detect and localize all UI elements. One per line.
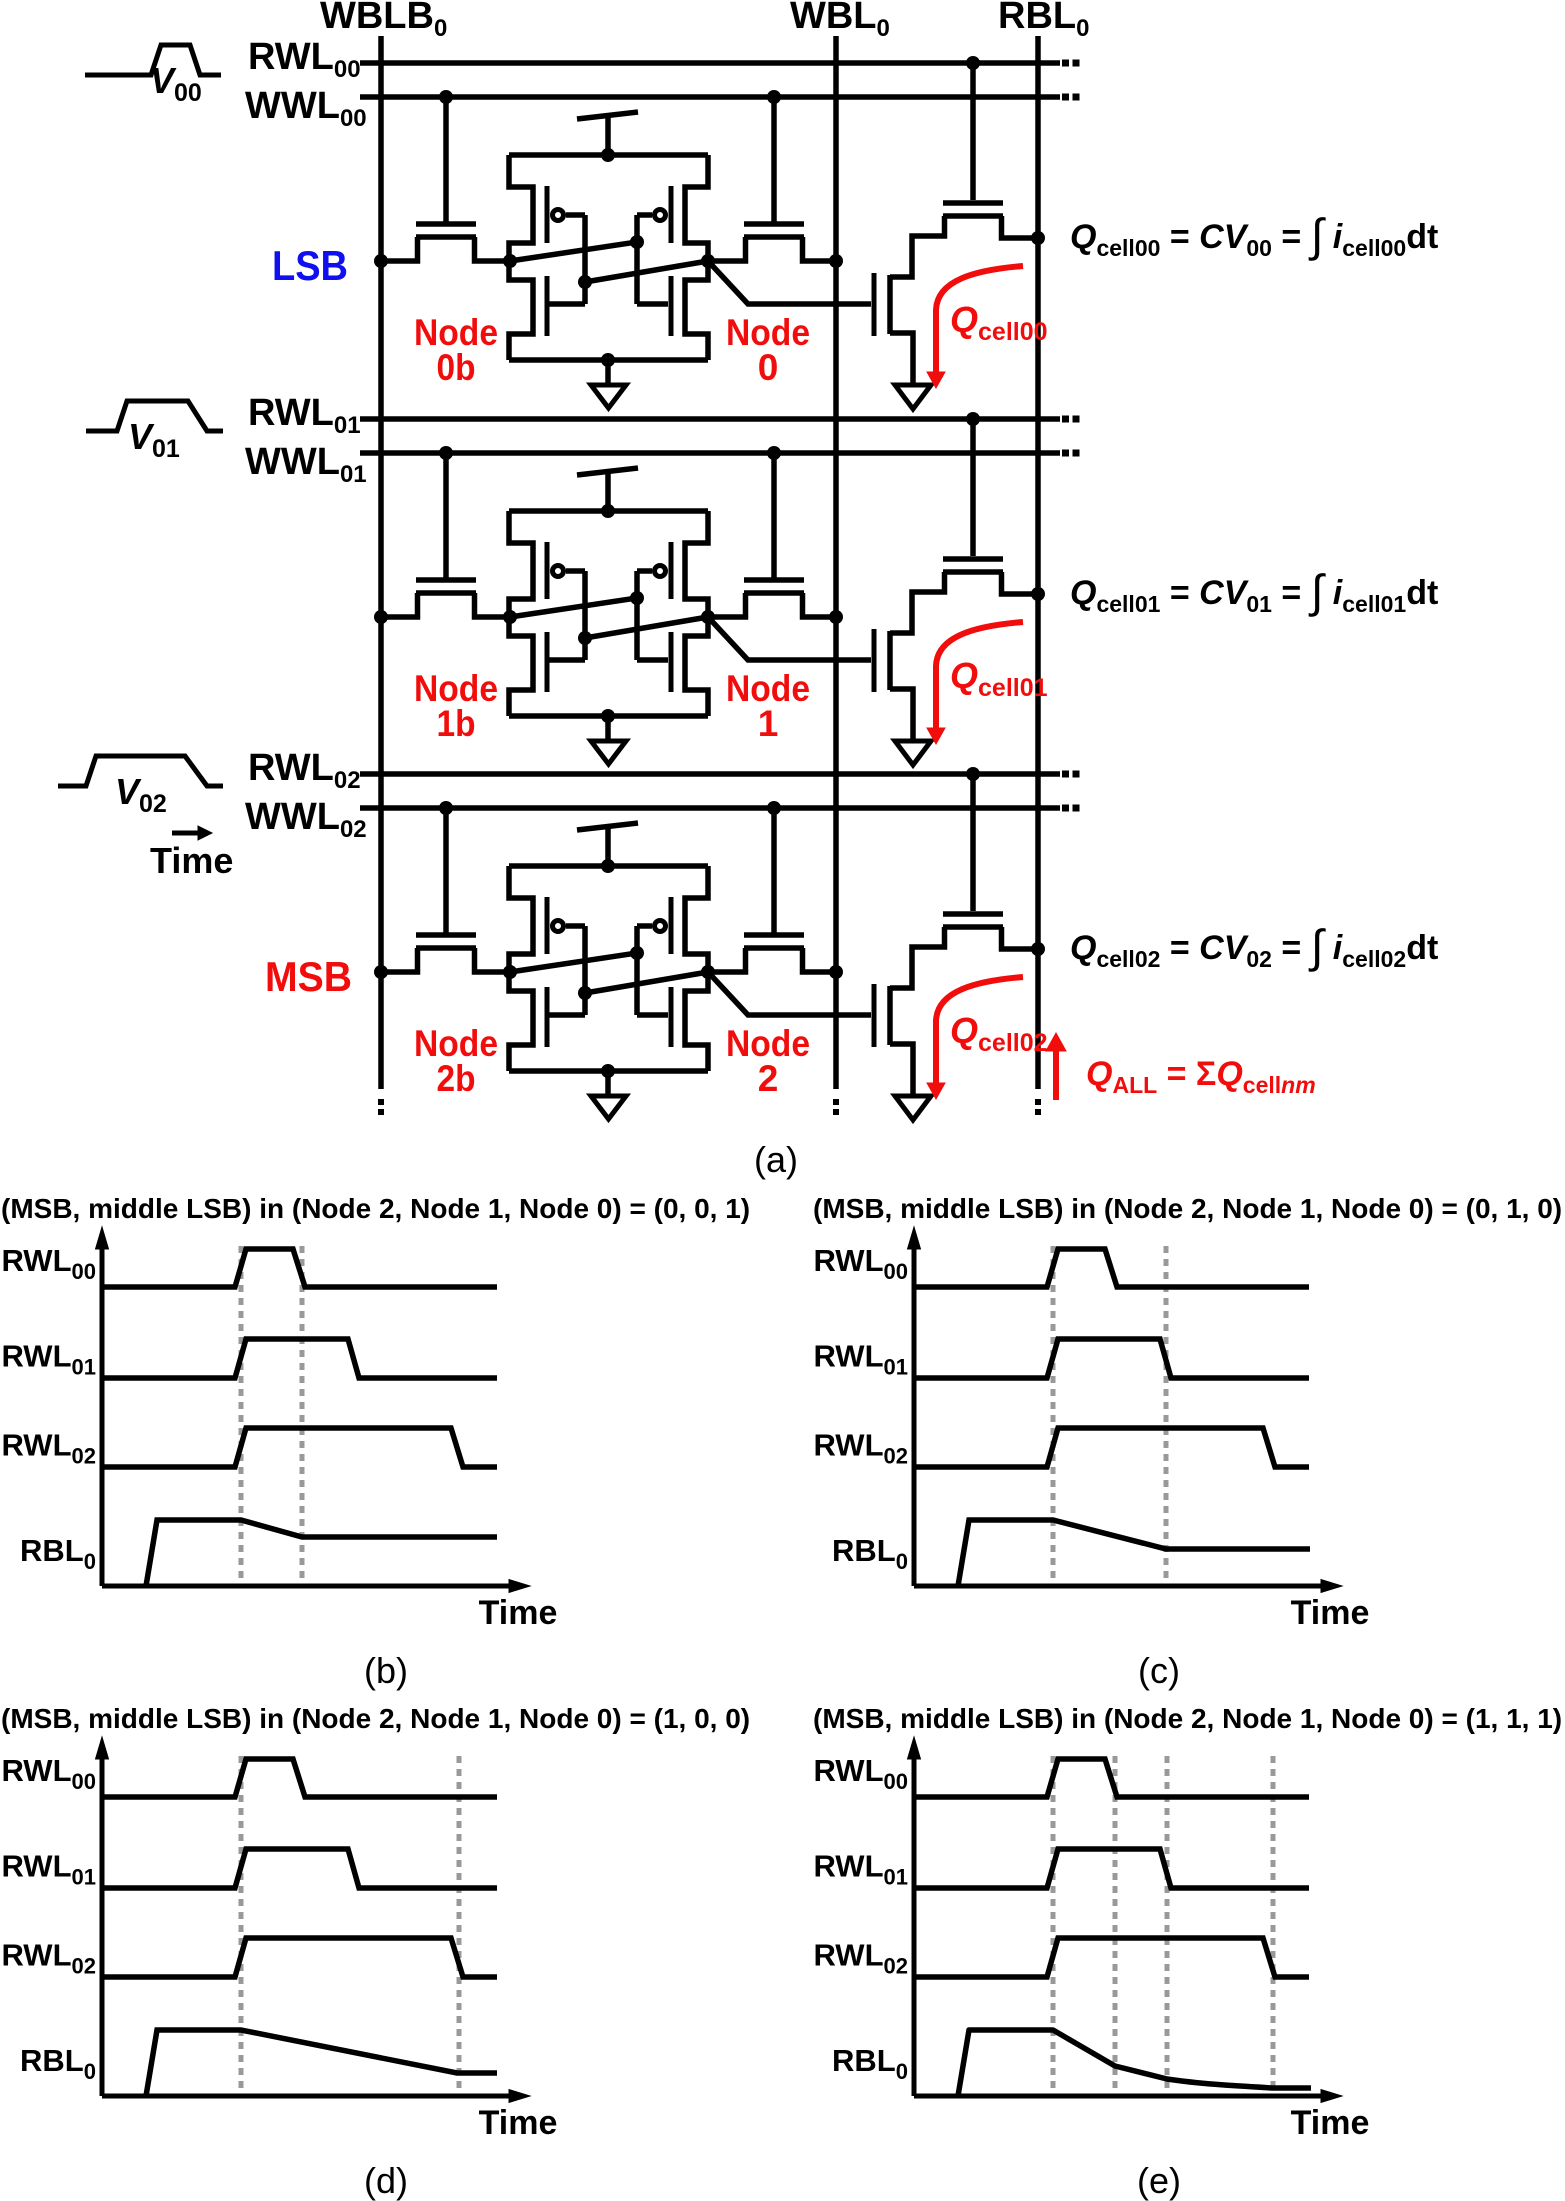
waveform RWL02 panel (e) (914, 1938, 1309, 1977)
node 1b junction (storage node) (503, 610, 517, 624)
dotted reference line 2 panel (c) (1164, 1246, 1169, 1586)
wire node 0 to read driver gate (708, 261, 871, 304)
svg-text:(b): (b) (364, 1650, 408, 1691)
wire node 1 to read driver gate (708, 617, 871, 660)
svg-text:0b: 0b (437, 347, 476, 388)
transistor left pull-up PMOS + pull-down NMOS source/drain chain cell 01 (509, 511, 533, 716)
power VDD symbol of cell 00 (577, 112, 638, 119)
node 2b junction (storage node) (503, 965, 517, 979)
junction cross-couple A cell 00 (630, 235, 644, 249)
junction WBLB0 / cell 01 (374, 610, 388, 624)
y axis panel (b) (100, 1248, 105, 1586)
continuation dots RWL00 (1062, 60, 1069, 67)
junction WBL0 / cell 01 (829, 610, 843, 624)
continuation dots RWL01 (1062, 416, 1069, 423)
junction WBLB0 / cell 00 (374, 254, 388, 268)
svg-text:Time: Time (479, 2104, 558, 2142)
transistor left pull-up PMOS + pull-down NMOS source/drain chain cell 00 (509, 155, 533, 360)
svg-text:(c): (c) (1138, 1650, 1180, 1691)
dotted reference line 1 panel (b) (239, 1246, 244, 1586)
power VDD symbol of cell 01 (577, 468, 638, 475)
waveform RWL00 panel (c) (914, 1249, 1309, 1287)
svg-text:(e): (e) (1137, 2160, 1181, 2201)
transistor left pull-up PMOS + pull-down NMOS source/drain chain cell 02 (509, 866, 533, 1071)
gate bar left PMOS cell 02 (545, 897, 550, 954)
gate bar left NMOS cell 02 (545, 987, 550, 1047)
waveform RWL02 panel (c) (914, 1428, 1309, 1467)
svg-text:Time: Time (150, 840, 233, 881)
wire WWL01 row line (360, 450, 1060, 456)
ground symbol of latch cell 00 (605, 360, 611, 385)
svg-text:(MSB, middle LSB) in (Node 2,: (MSB, middle LSB) in (Node 2, Node 1, No… (813, 1703, 1562, 1734)
transistor read access NMOS cell 01 (gate RWL01) (943, 419, 1038, 594)
transistor right write-access NMOS of cell 00 (gate WWL00) (709, 97, 836, 261)
gate bar right NMOS cell 01 (669, 632, 674, 692)
current arrow Q_ALL (red, upward) (1053, 1050, 1059, 1100)
junction RBL0 / read stack cell 00 (1031, 231, 1045, 245)
junction cross-couple B cell 01 (578, 631, 592, 645)
continuation dots WWL01 (1062, 450, 1069, 457)
junction WWL00 / left access gate (439, 90, 453, 104)
svg-text:LSB: LSB (272, 242, 348, 289)
dotted reference line 2 panel (b) (300, 1246, 305, 1586)
waveform RWL00 panel (e) (914, 1759, 1309, 1797)
junction WBLB0 / cell 02 (374, 965, 388, 979)
waveform RWL01 panel (b) (102, 1339, 497, 1378)
node 2 junction (storage node) (701, 965, 715, 979)
waveform RBL0 panel (c) (958, 1520, 1310, 1586)
time axis arrow under V02 (172, 831, 200, 836)
junction RWL01 / read access gate (966, 412, 980, 426)
wire latch VDD top rail cell 00 (509, 152, 708, 158)
junction VDD stub / latch top rail cell 01 (601, 504, 615, 518)
transistor read access NMOS cell 00 (gate RWL00) (943, 63, 1038, 238)
continuation dots WWL02 (1062, 805, 1069, 812)
waveform RBL0 panel (b) (146, 1520, 497, 1586)
transistor read driver NMOS cell 02 (gate node 2) (874, 927, 945, 1097)
waveform RBL0 panel (d) (146, 2030, 497, 2096)
junction RBL0 / read stack cell 02 (1031, 942, 1045, 956)
node 0 junction (storage node) (701, 254, 715, 268)
waveform RWL00 panel (b) (102, 1249, 497, 1287)
gate bar left PMOS cell 00 (545, 186, 550, 243)
continuation dots WWL00 (1062, 94, 1069, 101)
junction WWL01 / right access gate (767, 446, 781, 460)
junction VDD stub / latch top rail cell 00 (601, 148, 615, 162)
current arrow Q_cell02 (936, 977, 1023, 1083)
wire RBL0 vertical read bit line (1035, 36, 1041, 1089)
dotted reference line 1 panel (d) (239, 1756, 244, 2096)
svg-text:(MSB, middle LSB) in (Node 2,: (MSB, middle LSB) in (Node 2, Node 1, No… (1, 1193, 750, 1224)
x axis panel (c) (914, 1584, 1324, 1589)
svg-text:WBLB0: WBLB0 (320, 0, 447, 42)
gate bar left NMOS cell 01 (545, 632, 550, 692)
svg-text:2b: 2b (437, 1058, 476, 1099)
dotted reference line 4 panel (e) (1271, 1756, 1276, 2096)
junction cross-couple A cell 02 (630, 946, 644, 960)
wire cross-couple node 2 to left inverter gates (547, 926, 708, 1015)
gate bubble right PMOS cell 00 (655, 210, 666, 221)
svg-text:(MSB, middle LSB) in (Node 2,: (MSB, middle LSB) in (Node 2, Node 1, No… (1, 1703, 750, 1734)
gate bubble left PMOS cell 02 (553, 921, 564, 932)
y axis panel (e) (912, 1758, 917, 2096)
svg-text:WBL0: WBL0 (790, 0, 890, 42)
svg-text:1: 1 (758, 703, 779, 744)
gate bubble left PMOS cell 00 (553, 210, 564, 221)
dotted reference line 1 panel (c) (1051, 1246, 1056, 1586)
waveform RWL01 panel (d) (102, 1849, 497, 1888)
svg-text:(MSB, middle LSB) in (Node 2,: (MSB, middle LSB) in (Node 2, Node 1, No… (813, 1193, 1562, 1224)
svg-text:Time: Time (1291, 1594, 1370, 1632)
wire RWL02 row line (360, 771, 1060, 777)
wire cross-couple node 0 to left inverter gates (547, 215, 708, 304)
ground symbol of read stack cell 01 (895, 741, 931, 765)
continuation dots below RBL0 (1035, 1099, 1041, 1105)
transistor right write-access NMOS of cell 02 (gate WWL02) (709, 808, 836, 972)
wire RWL00 row line (360, 60, 1060, 66)
wire WWL00 row line (360, 94, 1060, 100)
junction bottom rail / ground stub cell 01 (601, 709, 615, 723)
svg-text:MSB: MSB (265, 953, 352, 1000)
input pulse waveform V01 (86, 401, 223, 431)
wire WBLB0 vertical bit line (378, 36, 384, 1089)
waveform RWL02 panel (d) (102, 1938, 497, 1977)
gate bubble left PMOS cell 01 (553, 566, 564, 577)
gate bubble right PMOS cell 01 (655, 566, 666, 577)
x axis panel (e) (914, 2094, 1324, 2099)
svg-text:Time: Time (1291, 2104, 1370, 2142)
svg-text:1b: 1b (437, 703, 476, 744)
svg-text:0: 0 (758, 347, 779, 388)
wire latch ground bottom rail cell 00 (509, 357, 708, 363)
svg-text:2: 2 (758, 1058, 779, 1099)
dotted reference line 2 panel (e) (1113, 1756, 1118, 2096)
junction cross-couple B cell 00 (578, 275, 592, 289)
junction cross-couple B cell 02 (578, 986, 592, 1000)
node 0b junction (storage node) (503, 254, 517, 268)
junction bottom rail / ground stub cell 02 (601, 1064, 615, 1078)
gate bar right PMOS cell 02 (669, 897, 674, 954)
gate bar right PMOS cell 01 (669, 542, 674, 599)
wire latch ground bottom rail cell 01 (509, 713, 708, 719)
transistor read driver NMOS cell 01 (gate node 1) (874, 572, 945, 742)
gate bar right NMOS cell 00 (669, 276, 674, 336)
gate bar left NMOS cell 00 (545, 276, 550, 336)
svg-text:Time: Time (479, 1594, 558, 1632)
junction WWL00 / right access gate (767, 90, 781, 104)
junction WWL01 / left access gate (439, 446, 453, 460)
svg-text:(a): (a) (754, 1139, 798, 1180)
wire node 2 to read driver gate (708, 972, 871, 1015)
waveform RWL01 panel (e) (914, 1849, 1309, 1888)
wire RWL01 row line (360, 416, 1060, 422)
wire latch VDD top rail cell 01 (509, 508, 708, 514)
ground symbol of read stack cell 02 (895, 1096, 931, 1120)
junction RWL02 / read access gate (966, 767, 980, 781)
junction RWL00 / read access gate (966, 56, 980, 70)
transistor read access NMOS cell 02 (gate RWL02) (943, 774, 1038, 949)
transistor left write-access NMOS of cell 00 (gate WWL00) (381, 97, 510, 261)
junction WWL02 / left access gate (439, 801, 453, 815)
x axis panel (b) (102, 1584, 512, 1589)
transistor right pull-up PMOS + pull-down NMOS source/drain chain cell 01 (685, 511, 708, 716)
gate bar right NMOS cell 02 (669, 987, 674, 1047)
input pulse waveform V00 (85, 45, 221, 75)
wire WWL02 row line (360, 805, 1060, 811)
gate bubble right PMOS cell 02 (655, 921, 666, 932)
transistor right pull-up PMOS + pull-down NMOS source/drain chain cell 00 (685, 155, 708, 360)
waveform RWL00 panel (d) (102, 1759, 497, 1797)
transistor read driver NMOS cell 00 (gate node 0) (874, 216, 945, 386)
dotted reference line 1 panel (e) (1051, 1756, 1056, 2096)
wire latch VDD top rail cell 02 (509, 863, 708, 869)
current arrow Q_cell00 (936, 266, 1023, 372)
current arrow Q_cell01 (936, 622, 1023, 728)
svg-text:(d): (d) (364, 2160, 408, 2201)
continuation dots below WBLB0 (378, 1099, 384, 1105)
gate bar right PMOS cell 00 (669, 186, 674, 243)
junction WBL0 / cell 02 (829, 965, 843, 979)
ground symbol of latch cell 02 (605, 1071, 611, 1096)
transistor right write-access NMOS of cell 01 (gate WWL01) (709, 453, 836, 617)
junction WWL02 / right access gate (767, 801, 781, 815)
ground symbol of latch cell 01 (605, 716, 611, 741)
transistor right pull-up PMOS + pull-down NMOS source/drain chain cell 02 (685, 866, 708, 1071)
wire cross-couple node 1 to left inverter gates (547, 571, 708, 660)
node 1 junction (storage node) (701, 610, 715, 624)
continuation dots below WBL0 (833, 1099, 839, 1105)
wire cross-couple node 2b to right inverter gates (510, 926, 668, 1015)
wire cross-couple node 1b to right inverter gates (510, 571, 668, 660)
wire latch ground bottom rail cell 02 (509, 1068, 708, 1074)
continuation dots RWL02 (1062, 771, 1069, 778)
y axis panel (c) (912, 1248, 917, 1586)
junction bottom rail / ground stub cell 00 (601, 353, 615, 367)
junction cross-couple A cell 01 (630, 591, 644, 605)
waveform RWL01 panel (c) (914, 1339, 1309, 1378)
power VDD symbol of cell 02 (577, 823, 638, 830)
svg-text:RBL0: RBL0 (998, 0, 1089, 42)
waveform RWL02 panel (b) (102, 1428, 497, 1467)
waveform RBL0 panel (e) (958, 2030, 1311, 2096)
wire WBL0 vertical bit line (833, 36, 839, 1089)
junction RBL0 / read stack cell 01 (1031, 587, 1045, 601)
dotted reference line 3 panel (e) (1165, 1756, 1170, 2096)
dotted reference line 2 panel (d) (457, 1756, 462, 2096)
transistor left write-access NMOS of cell 02 (gate WWL02) (381, 808, 510, 972)
input pulse waveform V02 (58, 756, 223, 786)
junction VDD stub / latch top rail cell 02 (601, 859, 615, 873)
x axis panel (d) (102, 2094, 512, 2099)
gate bar left PMOS cell 01 (545, 542, 550, 599)
y axis panel (d) (100, 1758, 105, 2096)
wire cross-couple node 0b to right inverter gates (510, 215, 668, 304)
ground symbol of read stack cell 00 (895, 385, 931, 409)
junction WBL0 / cell 00 (829, 254, 843, 268)
transistor left write-access NMOS of cell 01 (gate WWL01) (381, 453, 510, 617)
